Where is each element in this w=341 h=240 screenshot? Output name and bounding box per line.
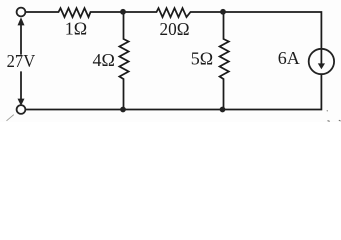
svg-text:6A: 6A [278, 48, 300, 68]
svg-text:27V: 27V [7, 51, 36, 71]
svg-text:5Ω: 5Ω [191, 49, 213, 69]
svg-text:1Ω: 1Ω [65, 19, 87, 39]
svg-text:4Ω: 4Ω [93, 50, 115, 70]
svg-text:20Ω: 20Ω [160, 19, 190, 39]
